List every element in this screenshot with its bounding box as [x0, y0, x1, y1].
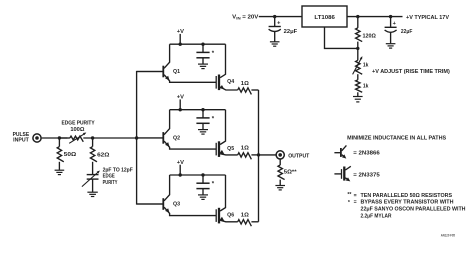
- svg-text:Q1: Q1: [173, 69, 180, 75]
- svg-text:62Ω: 62Ω: [97, 152, 109, 158]
- svg-text:MINIMIZE INDUCTANCE IN ALL PAT: MINIMIZE INDUCTANCE IN ALL PATHS: [347, 135, 447, 141]
- svg-text:INPUT: INPUT: [13, 138, 29, 144]
- svg-text:5Ω**: 5Ω**: [284, 169, 298, 175]
- svg-text:+V ADJUST (RISE TIME TRIM): +V ADJUST (RISE TIME TRIM): [372, 69, 450, 75]
- svg-text:2pF TO 12pF: 2pF TO 12pF: [103, 168, 133, 174]
- svg-text:Q6: Q6: [227, 212, 234, 218]
- svg-text:22μF SANYO OSCON PARALLELED WI: 22μF SANYO OSCON PARALLELED WITH: [361, 207, 466, 213]
- svg-text:= 2N3866: = 2N3866: [353, 150, 380, 156]
- svg-text:EDGE: EDGE: [103, 174, 116, 180]
- svg-text:1Ω: 1Ω: [241, 81, 249, 87]
- svg-text:Q4: Q4: [227, 79, 234, 85]
- svg-text:=: =: [354, 200, 357, 206]
- svg-text:= 2N3375: = 2N3375: [353, 172, 380, 178]
- svg-text:LT1086: LT1086: [314, 15, 335, 21]
- svg-text:1k: 1k: [363, 84, 369, 90]
- svg-text:2.2μF MYLAR: 2.2μF MYLAR: [361, 213, 392, 219]
- svg-text:Q5: Q5: [227, 146, 234, 152]
- svg-text:+V TYPICAL 17V: +V TYPICAL 17V: [406, 15, 450, 21]
- svg-text:EDGE PURITY: EDGE PURITY: [62, 120, 96, 126]
- svg-text:1k: 1k: [363, 63, 369, 69]
- svg-text:Q3: Q3: [173, 202, 180, 208]
- svg-text:22μF: 22μF: [401, 29, 413, 35]
- svg-text:22μF: 22μF: [284, 29, 298, 35]
- svg-text:VIN = 20V: VIN = 20V: [232, 15, 259, 21]
- svg-text:PURITY: PURITY: [103, 180, 118, 186]
- svg-text:TEN PARALLELED 50Ω RESISTORS: TEN PARALLELED 50Ω RESISTORS: [361, 193, 453, 199]
- svg-text:OUTPUT: OUTPUT: [288, 153, 310, 159]
- svg-text:50Ω: 50Ω: [64, 152, 76, 158]
- svg-text:BYPASS EVERY TRANSISTOR WITH: BYPASS EVERY TRANSISTOR WITH: [361, 200, 454, 206]
- svg-text:Q2: Q2: [173, 136, 180, 142]
- svg-text:120Ω: 120Ω: [363, 33, 376, 39]
- svg-text:AN120 F05: AN120 F05: [441, 234, 455, 238]
- svg-text:1Ω: 1Ω: [241, 146, 249, 152]
- svg-text:1Ω: 1Ω: [241, 213, 249, 219]
- svg-text:100Ω: 100Ω: [70, 127, 84, 133]
- svg-text:=: =: [354, 193, 357, 199]
